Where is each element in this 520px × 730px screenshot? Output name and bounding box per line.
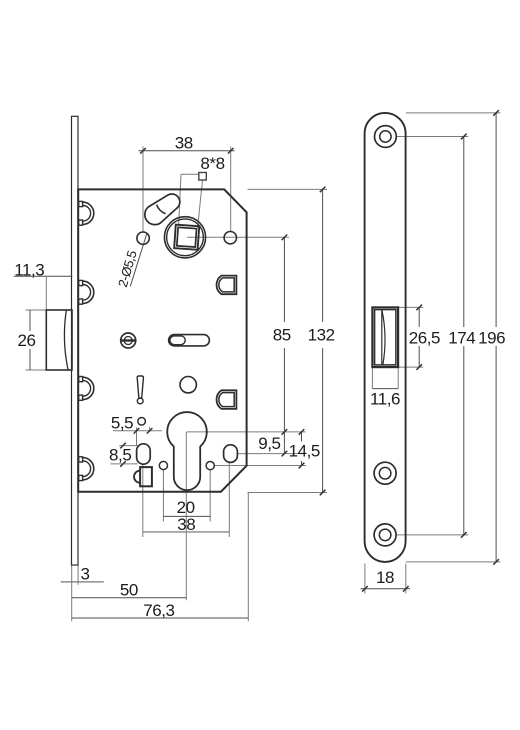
svg-text:5,5: 5,5 — [111, 414, 133, 433]
svg-text:38: 38 — [177, 515, 195, 534]
svg-text:174: 174 — [448, 328, 475, 347]
svg-text:132: 132 — [308, 326, 335, 345]
svg-text:11,3: 11,3 — [14, 260, 44, 279]
svg-text:196: 196 — [478, 328, 505, 347]
svg-text:3: 3 — [80, 564, 89, 583]
svg-text:76,3: 76,3 — [143, 601, 174, 620]
svg-text:50: 50 — [120, 580, 138, 599]
svg-text:26: 26 — [17, 331, 35, 350]
svg-text:26,5: 26,5 — [409, 328, 440, 347]
svg-text:9,5: 9,5 — [258, 434, 280, 453]
svg-text:8,5: 8,5 — [109, 445, 131, 464]
svg-text:14,5: 14,5 — [289, 441, 320, 460]
svg-text:8*8: 8*8 — [200, 154, 224, 173]
svg-text:38: 38 — [175, 134, 193, 153]
svg-text:85: 85 — [273, 326, 291, 345]
svg-text:18: 18 — [376, 568, 394, 587]
svg-text:11,6: 11,6 — [370, 390, 400, 409]
